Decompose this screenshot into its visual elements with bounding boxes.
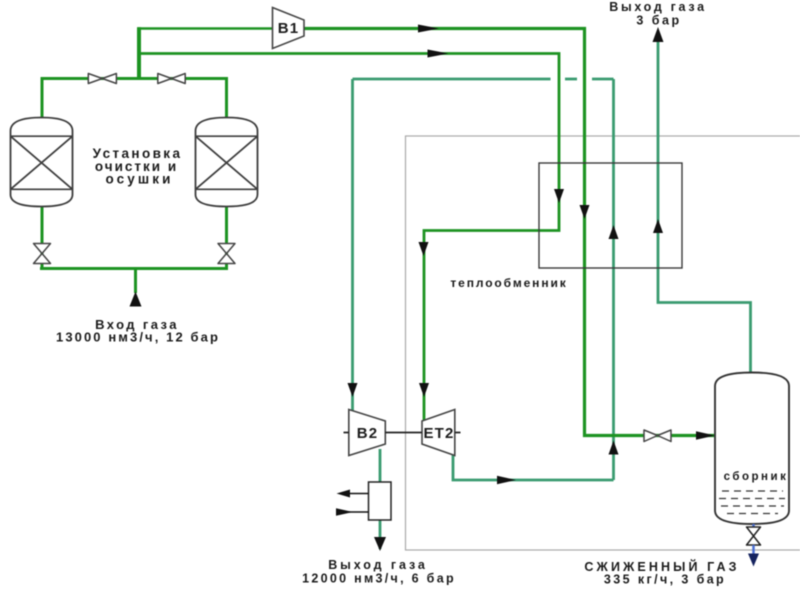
vessel V2	[196, 118, 258, 207]
vessel V1	[11, 118, 73, 207]
cooler water out line	[340, 493, 369, 495]
arrow: down below HX exit x422.5	[419, 242, 429, 256]
valve V1-bottom (vertical)	[34, 244, 51, 264]
label: СЖИЖЕННЫЙ ГАЗ	[584, 559, 739, 587]
wire: B1 inlet line	[138, 27, 277, 30]
valve V2-bottom (vertical)	[218, 244, 235, 264]
wire: inlet riser	[134, 269, 137, 294]
cooler box below B2	[369, 482, 392, 520]
wire: bottom header	[40, 267, 227, 270]
arrow: B1 inlet right	[418, 25, 439, 33]
collector vessel	[715, 373, 789, 525]
valve V1-top (left horizontal)	[88, 74, 116, 84]
wire: B2 inlet drop	[351, 79, 354, 413]
liquid level dashes	[719, 491, 785, 514]
svg-text:3 бар: 3 бар	[636, 14, 681, 28]
valve: collector bottom	[747, 527, 761, 545]
blue drain line	[752, 545, 755, 555]
arrow: B2 outlet down	[374, 537, 386, 551]
arrow: HX up x658	[653, 219, 663, 233]
svg-text:335 кг/ч, 3 бар: 335 кг/ч, 3 бар	[604, 573, 726, 587]
collector bottom stub (blue)	[752, 524, 755, 529]
wire: cold return riser	[612, 79, 615, 480]
valve V2-top (right horizontal)	[158, 74, 185, 84]
compressor B2	[349, 410, 386, 456]
arrow: HX up x613.5	[609, 225, 619, 239]
wire: cold return horizontal solid part	[353, 78, 614, 81]
wire: V1 bottom stub	[41, 204, 44, 270]
label: Выход газа 3 бар (top)	[609, 0, 707, 28]
label: Установка очистки и осушки	[93, 146, 183, 187]
compressor B1	[273, 8, 305, 49]
valve: collector feed line	[644, 430, 671, 442]
svg-text:сборник: сборник	[724, 471, 789, 483]
shaft line B2-ET2	[344, 432, 461, 434]
label: Выход газа 12000 (bottom)	[302, 558, 456, 586]
arrow: gas outlet up	[653, 27, 664, 42]
cooler water in line	[338, 511, 369, 513]
wire: top header y=78.5	[42, 79, 227, 121]
arrow: inlet up	[130, 292, 142, 307]
wire: V2 bottom stub	[225, 204, 228, 270]
arrow: bypass right	[428, 50, 449, 58]
svg-text:Выход газа: Выход газа	[328, 558, 428, 572]
svg-text:13000 нм3/ч, 12 бар: 13000 нм3/ч, 12 бар	[56, 330, 220, 345]
svg-text:B1: B1	[278, 20, 300, 37]
arrow: HX down x584.5	[580, 205, 590, 219]
wire: bypass line to HX and down to ET2	[141, 54, 560, 423]
wire: cold return dash	[565, 78, 577, 81]
arrow: cooler water out left	[337, 490, 351, 498]
frame: outer gray battery-limit box	[406, 136, 800, 550]
wire: B2 outlet through cooler	[379, 449, 382, 549]
wire: riser to B1	[137, 27, 141, 78]
arrow: cooler water in right	[336, 508, 353, 516]
arrow: cold riser up	[609, 441, 619, 455]
svg-text:осушки: осушки	[106, 172, 174, 187]
arrow: ET2 inlet down	[419, 383, 429, 397]
arrow: HX down x559	[554, 189, 564, 203]
wire: collector top to gas outlet	[658, 42, 751, 374]
arrow: collector inlet right	[696, 431, 715, 439]
expander ET2	[422, 410, 455, 456]
wire: B1 outlet to HX and collector feed	[300, 29, 714, 436]
svg-text:B2: B2	[357, 425, 379, 442]
svg-text:теплообменник: теплообменник	[450, 276, 567, 290]
svg-text:12000 нм3/ч, 6 бар: 12000 нм3/ч, 6 бар	[302, 572, 456, 586]
arrow: B2 inlet down	[348, 383, 358, 397]
heat exchanger box	[539, 163, 682, 268]
label: Вход газа	[56, 317, 220, 345]
arrow: ET2 outlet right	[497, 476, 516, 484]
wire: ET2 outlet loop	[453, 450, 614, 480]
arrow: drain down (blue/dark)	[748, 554, 759, 567]
svg-text:ET2: ET2	[423, 425, 454, 442]
svg-text:Выход газа: Выход газа	[609, 0, 707, 14]
